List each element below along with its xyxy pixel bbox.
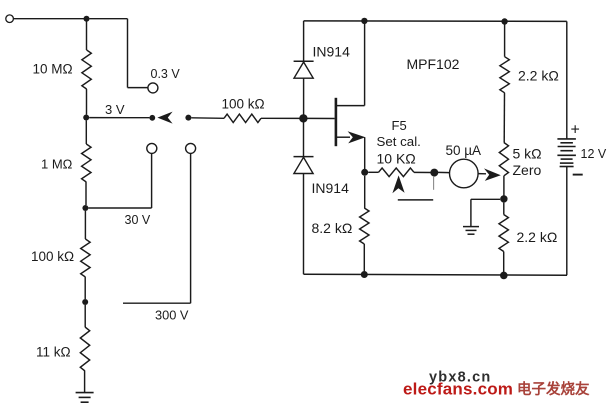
- VR1 wiper lead horizontal: [398, 199, 433, 201]
- svg-text:+: +: [571, 122, 580, 139]
- terminal 30V tap: [147, 143, 157, 153]
- svg-text:10 KΩ: 10 KΩ: [377, 151, 416, 167]
- svg-text:11 kΩ: 11 kΩ: [36, 345, 71, 360]
- resistor R8 2.2 k&#937; (lower): [499, 215, 508, 252]
- resistor R7 8.2 k&#937;: [360, 208, 369, 244]
- wire node Z to ground corner: [471, 198, 500, 200]
- wire 0.3V branch vertical: [127, 19, 129, 88]
- svg-text:F5: F5: [392, 118, 407, 133]
- battery B1 12 V: [557, 139, 576, 167]
- wire top rail to R6: [504, 25, 506, 57]
- junction bottom rail / R8: [500, 272, 508, 280]
- VR1 wiper arrow: [392, 175, 404, 193]
- wire R6 to VR2: [503, 93, 505, 143]
- wire node A to R1: [86, 22, 88, 51]
- svg-text:1 MΩ: 1 MΩ: [41, 156, 73, 171]
- wire battery top: [566, 21, 568, 138]
- resistor R3 100 k&#937;: [81, 239, 90, 277]
- svg-text:8.2 kΩ: 8.2 kΩ: [312, 220, 353, 236]
- svg-text:0.3 V: 0.3 V: [151, 67, 181, 81]
- terminal 0.3V tap: [148, 83, 158, 93]
- VR1 wiper lead stub (faint): [433, 177, 435, 190]
- wire node B to selector dot: [89, 117, 149, 119]
- svg-text:5 kΩ: 5 kΩ: [513, 145, 542, 161]
- junction selector contact right: [185, 115, 191, 121]
- selector wiper arrow (points left at 3V tap): [157, 112, 172, 124]
- wire 300V vertical: [190, 153, 192, 303]
- svg-text:3 V: 3 V: [105, 102, 125, 117]
- wire node B to R2: [85, 121, 87, 145]
- svg-text:12 V: 12 V: [581, 147, 607, 161]
- svg-text:300 V: 300 V: [155, 307, 189, 322]
- wire bottom rail: [304, 274, 568, 275]
- wire node C to R3: [84, 211, 86, 239]
- wire Q1 source lead: [337, 136, 350, 138]
- svg-text:Set cal.: Set cal.: [377, 134, 421, 149]
- wire VR2 to node Z: [503, 176, 505, 196]
- wire node Z to R8: [503, 203, 505, 215]
- ground G2 (meter return): [463, 227, 479, 235]
- wire 300V horizontal: [123, 302, 191, 304]
- svg-text:30 V: 30 V: [125, 213, 151, 227]
- wire R3 to node D: [84, 277, 86, 299]
- transistor Q1 MPF102 channel bar: [335, 98, 338, 146]
- svg-text:IN914: IN914: [313, 44, 351, 60]
- wire R2 to node C: [85, 182, 87, 205]
- wire R5 to gate node: [261, 117, 301, 119]
- wire selector to R5: [191, 117, 224, 120]
- wire gate node to D2: [303, 121, 305, 156]
- resistor R1 10 M&#937;: [82, 50, 91, 89]
- svg-text:100 kΩ: 100 kΩ: [222, 96, 265, 111]
- wire D2 to bottom rail: [303, 174, 305, 275]
- potentiometer VR1 10 K&#937; (Set cal.): [379, 168, 415, 177]
- wire Q1 source down to node S: [364, 137, 366, 169]
- input terminal J-in: [6, 15, 14, 23]
- junction gate node G: [299, 114, 307, 122]
- potentiometer VR2 5 k&#937; Zero: [499, 143, 508, 176]
- junction node Z: [500, 195, 507, 202]
- wire gate node to JFET gate: [306, 117, 334, 119]
- resistor R2 1 M&#937;: [82, 144, 91, 182]
- wire 30V horizontal: [88, 207, 151, 209]
- label - (battery negative): [573, 174, 583, 176]
- wire Q1 drain to top rail: [364, 21, 366, 106]
- wire 0.3V branch horizontal: [128, 87, 149, 89]
- VR2 wiper arrow (points right): [484, 168, 501, 181]
- wire top rail left corner down: [303, 21, 305, 61]
- wire D1 to gate node: [303, 78, 305, 115]
- junction node B (3V tap): [83, 115, 89, 121]
- junction node P: [430, 169, 438, 177]
- wire ground drop: [470, 199, 472, 226]
- junction top rail / R6: [501, 18, 507, 24]
- diode D2 IN914 (lower): [294, 157, 314, 174]
- Q1 source arrow: [348, 131, 366, 143]
- resistor R4 11 k&#937;: [80, 327, 89, 371]
- diode D1 IN914 (upper): [294, 61, 314, 78]
- svg-text:2.2 kΩ: 2.2 kΩ: [517, 229, 558, 245]
- svg-text:MPF102: MPF102: [407, 56, 460, 72]
- svg-text:50 µA: 50 µA: [446, 143, 482, 158]
- wire VR1 to node P: [414, 171, 431, 173]
- wire battery bottom: [566, 167, 568, 276]
- wire node D to R4: [84, 305, 86, 327]
- resistor R6 2.2 k&#937; (upper): [500, 57, 509, 93]
- svg-text:电子发烧友: 电子发烧友: [517, 380, 590, 398]
- svg-text:Zero: Zero: [513, 162, 542, 178]
- svg-text:10 MΩ: 10 MΩ: [33, 62, 73, 77]
- wire node A to 0.3V branch corner: [90, 18, 128, 20]
- svg-text:IN914: IN914: [312, 180, 350, 196]
- terminal 300V tap: [186, 143, 196, 153]
- junction node S: [361, 169, 368, 176]
- wire node P to meter: [438, 171, 450, 173]
- wire R7 to bottom rail: [363, 244, 365, 271]
- junction bottom rail / R7: [361, 271, 368, 278]
- junction node C (30V tap): [82, 205, 88, 211]
- wire R4 to ground: [84, 371, 86, 392]
- junction selector contact left: [149, 115, 155, 121]
- wire node S to R7: [364, 176, 366, 208]
- wire Q1 drain lead: [337, 105, 365, 107]
- junction node D (300V tap): [82, 299, 88, 305]
- wire R1 to node B: [86, 89, 88, 115]
- junction top rail / drain: [361, 18, 367, 24]
- meter M1 50 uA: [450, 159, 479, 188]
- wire node S to VR1: [368, 171, 378, 173]
- wire top rail: [304, 20, 567, 23]
- wire R8 to bottom rail: [503, 252, 505, 273]
- wire 30V vertical: [151, 153, 153, 208]
- svg-text:elecfans.com: elecfans.com: [403, 380, 513, 399]
- wire input to node A: [13, 18, 84, 20]
- wire meter to zero pot wiper: [478, 173, 486, 175]
- svg-text:100 kΩ: 100 kΩ: [31, 249, 74, 264]
- junction node A: [84, 16, 90, 22]
- svg-text:2.2 kΩ: 2.2 kΩ: [518, 68, 559, 84]
- resistor R5 100 k&#937; (series gate): [224, 114, 261, 122]
- ground G1 (input divider): [76, 393, 94, 403]
